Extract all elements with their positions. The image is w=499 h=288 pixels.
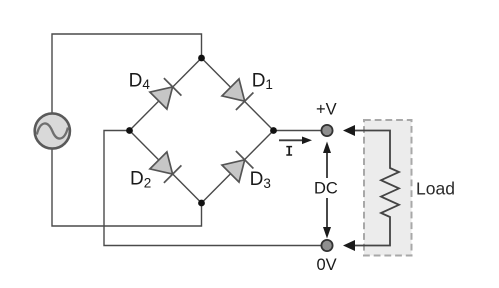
svg-text:D1: D1 xyxy=(252,70,273,92)
svg-text:D2: D2 xyxy=(130,168,151,190)
svg-text:Load: Load xyxy=(416,179,455,199)
svg-text:0V: 0V xyxy=(317,256,337,274)
svg-text:D3: D3 xyxy=(250,169,271,191)
svg-text:+V: +V xyxy=(316,100,337,118)
svg-text:D4: D4 xyxy=(129,70,151,92)
svg-text:DC: DC xyxy=(314,180,338,198)
